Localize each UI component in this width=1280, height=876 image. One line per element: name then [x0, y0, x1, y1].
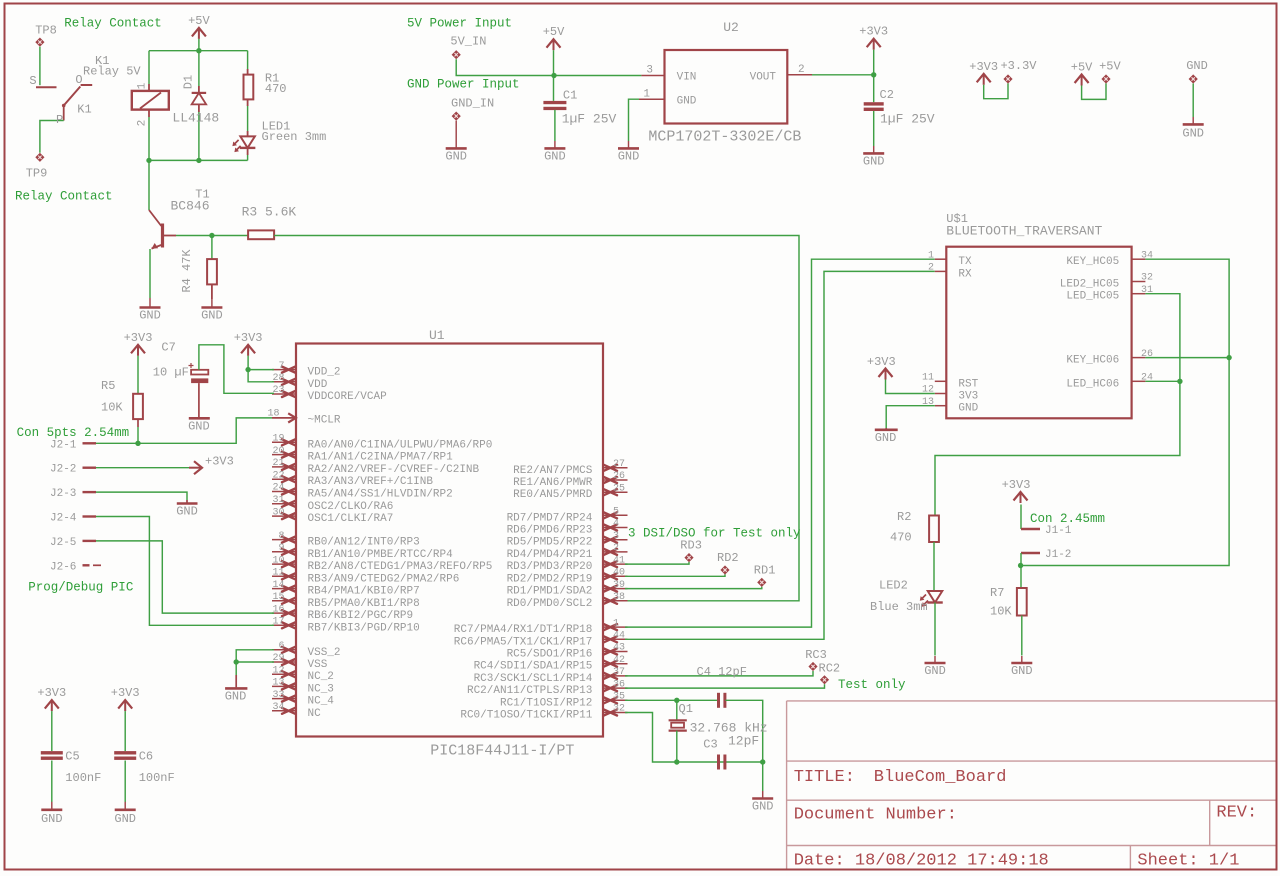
svg-text:+3V3: +3V3 — [867, 355, 896, 369]
svg-text:NC_2: NC_2 — [308, 671, 334, 683]
svg-text:RC5/SDO1/RP16: RC5/SDO1/RP16 — [507, 649, 593, 661]
svg-text:+5V: +5V — [1099, 60, 1121, 74]
svg-text:LED2_HC05: LED2_HC05 — [1060, 279, 1119, 291]
svg-text:33: 33 — [272, 690, 284, 701]
svg-text:Green 3mm: Green 3mm — [262, 130, 327, 144]
svg-text:37: 37 — [613, 667, 625, 678]
svg-text:19: 19 — [272, 434, 284, 445]
svg-text:J2-6: J2-6 — [50, 561, 76, 573]
svg-text:NC_4: NC_4 — [308, 696, 335, 708]
svg-text:GND: GND — [863, 154, 885, 168]
svg-text:J1-2: J1-2 — [1045, 549, 1071, 561]
svg-text:GND: GND — [139, 309, 161, 323]
svg-text:470: 470 — [890, 531, 912, 545]
svg-text:11: 11 — [922, 373, 934, 384]
svg-text:15: 15 — [272, 592, 284, 603]
svg-text:+5V: +5V — [543, 25, 565, 39]
svg-text:RA3/AN3/VREF+/C1INB: RA3/AN3/VREF+/C1INB — [308, 476, 434, 488]
svg-text:BC846: BC846 — [171, 199, 210, 214]
svg-text:VDD_2: VDD_2 — [308, 367, 341, 379]
svg-text:32: 32 — [1141, 273, 1153, 284]
svg-text:25: 25 — [613, 483, 625, 494]
svg-text:GND: GND — [1011, 664, 1033, 678]
svg-text:R2: R2 — [897, 510, 911, 524]
svg-text:R7: R7 — [990, 586, 1004, 600]
svg-text:U2: U2 — [723, 20, 739, 35]
svg-text:10K: 10K — [101, 401, 123, 415]
svg-text:12pF: 12pF — [728, 734, 759, 749]
svg-text:RC2: RC2 — [819, 662, 841, 676]
svg-text:MCP1702T-3302E/CB: MCP1702T-3302E/CB — [648, 128, 801, 145]
svg-text:+3V3: +3V3 — [859, 25, 888, 39]
svg-text:1: 1 — [137, 82, 149, 89]
svg-text:Con 2.45mm: Con 2.45mm — [1030, 512, 1105, 526]
svg-text:BlueCom_Board: BlueCom_Board — [874, 768, 1007, 787]
svg-text:4: 4 — [613, 519, 619, 530]
svg-text:5: 5 — [613, 507, 619, 518]
svg-text:36: 36 — [613, 679, 625, 690]
svg-text:RE1/AN6/PMWR: RE1/AN6/PMWR — [513, 477, 593, 489]
svg-text:12: 12 — [272, 665, 284, 676]
svg-text:O: O — [75, 73, 82, 87]
svg-text:REV:: REV: — [1216, 804, 1257, 823]
svg-text:GND: GND — [176, 505, 198, 519]
svg-text:+3.3V: +3.3V — [1000, 59, 1037, 73]
svg-text:RA0/AN0/C1INA/ULPWU/PMA6/RP0: RA0/AN0/C1INA/ULPWU/PMA6/RP0 — [308, 439, 493, 451]
svg-text:17: 17 — [272, 617, 284, 628]
svg-text:TP9: TP9 — [26, 167, 48, 181]
svg-text:20: 20 — [272, 446, 284, 457]
svg-text:26: 26 — [613, 471, 625, 482]
svg-text:10K: 10K — [990, 605, 1012, 619]
svg-text:NC_3: NC_3 — [308, 683, 334, 695]
svg-text:GND: GND — [677, 96, 697, 108]
svg-text:2: 2 — [137, 120, 149, 127]
svg-text:GND: GND — [201, 309, 223, 323]
svg-text:RC0/T1OSO/T1CKI/RP11: RC0/T1OSO/T1CKI/RP11 — [460, 710, 592, 722]
svg-text:1: 1 — [643, 89, 650, 101]
svg-text:3: 3 — [613, 531, 619, 542]
svg-text:RD2: RD2 — [717, 551, 739, 565]
svg-text:RD3/PMD3/RP20: RD3/PMD3/RP20 — [507, 561, 593, 573]
svg-text:100nF: 100nF — [139, 771, 175, 785]
svg-text:3: 3 — [646, 65, 653, 77]
svg-text:Relay 5V: Relay 5V — [83, 65, 141, 79]
svg-text:42: 42 — [613, 655, 625, 666]
svg-text:RE2/AN7/PMCS: RE2/AN7/PMCS — [513, 465, 593, 477]
svg-text:+3V3: +3V3 — [37, 686, 66, 700]
svg-text:GND: GND — [1182, 127, 1204, 141]
svg-text:J2-3: J2-3 — [50, 488, 76, 500]
svg-text:Test only: Test only — [838, 678, 906, 692]
svg-text:5V_IN: 5V_IN — [450, 34, 486, 48]
svg-text:K1: K1 — [77, 103, 91, 117]
svg-text:9: 9 — [278, 543, 284, 554]
svg-text:16: 16 — [272, 604, 284, 615]
svg-text:2: 2 — [613, 543, 619, 554]
svg-text:RD7/PMD7/RP24: RD7/PMD7/RP24 — [507, 512, 593, 524]
svg-text:13: 13 — [272, 678, 284, 689]
svg-text:29: 29 — [272, 653, 284, 664]
svg-text:RB1/AN10/PMBE/RTCC/RP4: RB1/AN10/PMBE/RTCC/RP4 — [308, 549, 454, 561]
svg-text:C2: C2 — [880, 88, 894, 102]
svg-text:OSC1/CLKI/RA7: OSC1/CLKI/RA7 — [308, 513, 394, 525]
svg-text:40: 40 — [613, 568, 625, 579]
svg-text:C7: C7 — [161, 341, 175, 355]
svg-text:43: 43 — [613, 643, 625, 654]
svg-text:TP8: TP8 — [35, 24, 57, 38]
svg-text:VOUT: VOUT — [750, 72, 777, 84]
svg-text:RD1: RD1 — [754, 564, 776, 578]
svg-text:Q1: Q1 — [679, 702, 693, 716]
svg-text:VSS_2: VSS_2 — [308, 647, 341, 659]
svg-text:C6: C6 — [139, 749, 153, 763]
svg-text:RC6/PMA5/TX1/CK1/RP17: RC6/PMA5/TX1/CK1/RP17 — [454, 636, 593, 648]
svg-text:C4 12pF: C4 12pF — [697, 665, 747, 679]
svg-text:RB2/AN8/CTEDG1/PMA3/REFO/RP5: RB2/AN8/CTEDG1/PMA3/REFO/RP5 — [308, 561, 493, 573]
svg-text:RC4/SDI1/SDA1/RP15: RC4/SDI1/SDA1/RP15 — [474, 661, 593, 673]
svg-text:VIN: VIN — [677, 72, 697, 84]
svg-text:R5: R5 — [101, 379, 115, 393]
svg-text:100nF: 100nF — [65, 771, 101, 785]
svg-text:38: 38 — [613, 592, 625, 603]
svg-text:J1-1: J1-1 — [1045, 525, 1072, 537]
svg-text:Sheet: 1/1: Sheet: 1/1 — [1137, 852, 1239, 871]
svg-text:Con 5pts 2.54mm: Con 5pts 2.54mm — [17, 426, 130, 440]
svg-text:31: 31 — [272, 495, 284, 506]
svg-text:KEY_HC05: KEY_HC05 — [1066, 256, 1119, 268]
svg-text:C3: C3 — [703, 738, 717, 752]
svg-text:VDD: VDD — [308, 379, 328, 391]
svg-text:J2-4: J2-4 — [50, 513, 77, 525]
svg-text:1µF 25V: 1µF 25V — [880, 112, 935, 127]
svg-text:GND: GND — [225, 690, 247, 704]
svg-text:2: 2 — [798, 64, 805, 76]
svg-text:Relay Contact: Relay Contact — [15, 190, 113, 204]
svg-text:28: 28 — [272, 373, 284, 384]
svg-text:GND Power Input: GND Power Input — [407, 78, 520, 92]
svg-text:RD1/PMD1/SDA2: RD1/PMD1/SDA2 — [507, 586, 593, 598]
svg-text:GND: GND — [875, 431, 897, 445]
svg-text:30: 30 — [272, 507, 284, 518]
svg-text:PIC18F44J11-I/PT: PIC18F44J11-I/PT — [430, 743, 574, 760]
svg-text:RD0/PMD0/SCL2: RD0/PMD0/SCL2 — [507, 598, 593, 610]
svg-text:GND: GND — [924, 664, 946, 678]
svg-text:24: 24 — [272, 483, 284, 494]
svg-text:21: 21 — [272, 458, 284, 469]
svg-text:RB4/PMA1/KBI0/RP7: RB4/PMA1/KBI0/RP7 — [308, 586, 420, 598]
svg-text:+5V: +5V — [188, 14, 210, 28]
svg-text:32: 32 — [613, 704, 625, 715]
svg-text:7: 7 — [278, 361, 284, 372]
svg-text:LED2: LED2 — [879, 579, 908, 593]
svg-text:1: 1 — [928, 250, 934, 261]
svg-text:27: 27 — [613, 459, 625, 470]
svg-text:GND: GND — [544, 149, 566, 163]
svg-text:KEY_HC06: KEY_HC06 — [1066, 355, 1119, 367]
svg-text:OSC2/CLKO/RA6: OSC2/CLKO/RA6 — [308, 501, 394, 513]
svg-text:U1: U1 — [429, 328, 445, 343]
svg-text:Document Number:: Document Number: — [794, 806, 957, 825]
svg-text:+3V3: +3V3 — [124, 331, 153, 345]
svg-text:RC3: RC3 — [805, 648, 827, 662]
svg-text:D1: D1 — [182, 75, 196, 89]
svg-text:34: 34 — [272, 702, 284, 713]
svg-text:RB3/AN9/CTEDG2/PMA2/RP6: RB3/AN9/CTEDG2/PMA2/RP6 — [308, 573, 460, 585]
svg-text:J2-5: J2-5 — [50, 537, 76, 549]
svg-text:J2-1: J2-1 — [50, 439, 77, 451]
svg-text:RB7/KBI3/PGD/RP10: RB7/KBI3/PGD/RP10 — [308, 622, 420, 634]
svg-text:J2-2: J2-2 — [50, 464, 76, 476]
svg-text:RB6/KBI2/PGC/RP9: RB6/KBI2/PGC/RP9 — [308, 610, 414, 622]
svg-text:GND: GND — [1186, 59, 1208, 73]
svg-text:+3V3: +3V3 — [234, 331, 263, 345]
svg-text:P: P — [56, 113, 63, 127]
svg-text:RC2/AN11/CTPLS/RP13: RC2/AN11/CTPLS/RP13 — [467, 685, 592, 697]
svg-text:5V Power Input: 5V Power Input — [407, 17, 512, 31]
svg-text:1µF 25V: 1µF 25V — [562, 111, 617, 126]
svg-text:RC3/SCK1/SCL1/RP14: RC3/SCK1/SCL1/RP14 — [474, 673, 593, 685]
svg-text:GND: GND — [188, 420, 210, 434]
svg-text:23: 23 — [272, 385, 284, 396]
svg-text:TITLE:: TITLE: — [794, 768, 855, 787]
svg-text:RA5/AN4/SS1/HLVDIN/RP2: RA5/AN4/SS1/HLVDIN/RP2 — [308, 489, 453, 501]
svg-text:GND: GND — [445, 149, 467, 163]
svg-text:LL4148: LL4148 — [172, 111, 219, 126]
svg-text:R3 5.6K: R3 5.6K — [242, 205, 297, 220]
svg-text:RB5/PMA0/KBI1/RP8: RB5/PMA0/KBI1/RP8 — [308, 598, 420, 610]
svg-text:Relay Contact: Relay Contact — [64, 17, 162, 31]
svg-text:2: 2 — [928, 263, 934, 274]
svg-text:41: 41 — [613, 555, 625, 566]
svg-text:11: 11 — [272, 568, 284, 579]
svg-text:RX: RX — [958, 268, 972, 280]
svg-text:C1: C1 — [563, 89, 577, 103]
svg-text:GND_IN: GND_IN — [451, 97, 494, 111]
svg-text:RST: RST — [958, 378, 978, 390]
svg-text:3 DSI/DSO for Test only: 3 DSI/DSO for Test only — [628, 527, 801, 541]
svg-text:Prog/Debug PIC: Prog/Debug PIC — [28, 581, 133, 595]
svg-text:Date: 18/08/2012 17:49:18: Date: 18/08/2012 17:49:18 — [794, 852, 1049, 871]
svg-text:22: 22 — [272, 470, 284, 481]
svg-text:LED_HC06: LED_HC06 — [1066, 378, 1119, 390]
svg-text:TX: TX — [958, 256, 972, 268]
svg-text:+5V: +5V — [1071, 61, 1093, 75]
svg-text:1: 1 — [613, 618, 619, 629]
svg-text:GND: GND — [958, 403, 978, 415]
svg-text:8: 8 — [278, 531, 284, 542]
svg-text:10: 10 — [272, 555, 284, 566]
svg-text:R4 47K: R4 47K — [180, 249, 194, 293]
svg-text:C5: C5 — [65, 749, 79, 763]
svg-text:VDDCORE/VCAP: VDDCORE/VCAP — [308, 391, 388, 403]
svg-text:RB0/AN12/INT0/RP3: RB0/AN12/INT0/RP3 — [308, 537, 420, 549]
svg-text:~MCLR: ~MCLR — [308, 415, 341, 427]
svg-text:RA2/AN2/VREF-/CVREF-/C2INB: RA2/AN2/VREF-/CVREF-/C2INB — [308, 464, 480, 476]
svg-text:Blue 3mm: Blue 3mm — [870, 600, 928, 614]
svg-text:RC7/PMA4/RX1/DT1/RP18: RC7/PMA4/RX1/DT1/RP18 — [454, 624, 593, 636]
svg-text:10 µF: 10 µF — [153, 366, 189, 380]
svg-text:RE0/AN5/PMRD: RE0/AN5/PMRD — [513, 489, 593, 501]
svg-text:VSS: VSS — [308, 659, 328, 671]
svg-text:RD3: RD3 — [680, 539, 702, 553]
svg-text:3V3: 3V3 — [958, 391, 978, 403]
svg-text:BLUETOOTH_TRAVERSANT: BLUETOOTH_TRAVERSANT — [946, 224, 1102, 239]
svg-text:+3V3: +3V3 — [111, 686, 140, 700]
svg-text:GND: GND — [618, 149, 640, 163]
svg-text:+3V3: +3V3 — [1002, 478, 1031, 492]
svg-text:35: 35 — [613, 692, 625, 703]
svg-text:GND: GND — [114, 812, 136, 826]
svg-text:GND: GND — [41, 812, 63, 826]
svg-text:NC: NC — [308, 708, 322, 720]
svg-text:LED_HC05: LED_HC05 — [1066, 291, 1119, 303]
svg-text:RC1/T1OSI/RP12: RC1/T1OSI/RP12 — [500, 697, 592, 709]
svg-text:39: 39 — [613, 580, 625, 591]
svg-text:GND: GND — [752, 800, 774, 814]
svg-text:RD5/PMD5/RP22: RD5/PMD5/RP22 — [507, 537, 593, 549]
svg-text:RD4/PMD4/RP21: RD4/PMD4/RP21 — [507, 549, 593, 561]
svg-text:6: 6 — [278, 641, 284, 652]
svg-text:S: S — [29, 74, 36, 88]
svg-text:RA1/AN1/C2INA/PMA7/RP1: RA1/AN1/C2INA/PMA7/RP1 — [308, 452, 454, 464]
svg-text:14: 14 — [272, 580, 284, 591]
svg-text:RD6/PMD6/RP23: RD6/PMD6/RP23 — [507, 525, 593, 537]
svg-text:+3V3: +3V3 — [969, 60, 998, 74]
svg-text:RD2/PMD2/RP19: RD2/PMD2/RP19 — [507, 573, 593, 585]
svg-text:470: 470 — [265, 82, 287, 96]
svg-text:44: 44 — [613, 631, 625, 642]
svg-text:+3V3: +3V3 — [205, 454, 234, 468]
